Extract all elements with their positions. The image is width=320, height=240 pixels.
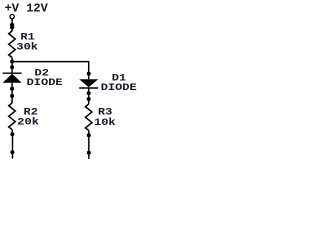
- resistor R1: [9, 31, 16, 58]
- wire: [88, 88, 90, 99]
- wire: [88, 135, 90, 153]
- wire: [11, 19, 13, 25]
- diode D1: [79, 79, 98, 87]
- diode D1 cathode bar: [79, 87, 98, 89]
- wire: [11, 28, 13, 32]
- svg-text:+V 12V: +V 12V: [5, 2, 49, 16]
- wire: [88, 131, 90, 136]
- power terminal +V: [10, 14, 14, 18]
- wire: [11, 96, 13, 103]
- wire (right branch vertical): [88, 61, 90, 74]
- svg-text:30k: 30k: [16, 42, 38, 53]
- junction dot node A: [10, 60, 14, 64]
- svg-text:R3: R3: [98, 107, 113, 118]
- resistor R2: [9, 103, 16, 130]
- junction dot: [10, 23, 14, 27]
- wire (horizontal to right branch): [12, 61, 89, 63]
- wire: [11, 62, 13, 73]
- svg-text:R2: R2: [24, 107, 39, 118]
- junction dot: [87, 97, 91, 101]
- junction dot: [87, 151, 91, 155]
- svg-text:20k: 20k: [17, 117, 39, 128]
- junction dot: [87, 133, 91, 137]
- wire stub: [88, 153, 90, 159]
- svg-text:10k: 10k: [94, 117, 116, 128]
- junction dot: [87, 72, 91, 76]
- junction dot: [10, 94, 14, 98]
- junction dot: [10, 65, 14, 69]
- diode D2 cathode bar: [3, 72, 22, 74]
- junction dot: [10, 150, 14, 154]
- wire: [11, 83, 13, 96]
- wire: [88, 74, 90, 80]
- diode D2: [3, 74, 22, 83]
- wire: [12, 134, 14, 152]
- svg-text:DIODE: DIODE: [101, 83, 137, 94]
- junction dot: [10, 132, 14, 136]
- junction dot: [10, 25, 14, 29]
- junction dot: [87, 91, 91, 95]
- wire: [11, 130, 13, 135]
- junction dot: [10, 87, 14, 91]
- wire: [88, 99, 90, 104]
- resistor R3: [85, 104, 92, 131]
- svg-text:DIODE: DIODE: [27, 77, 63, 88]
- wire: [11, 58, 13, 62]
- wire stub: [12, 152, 14, 158]
